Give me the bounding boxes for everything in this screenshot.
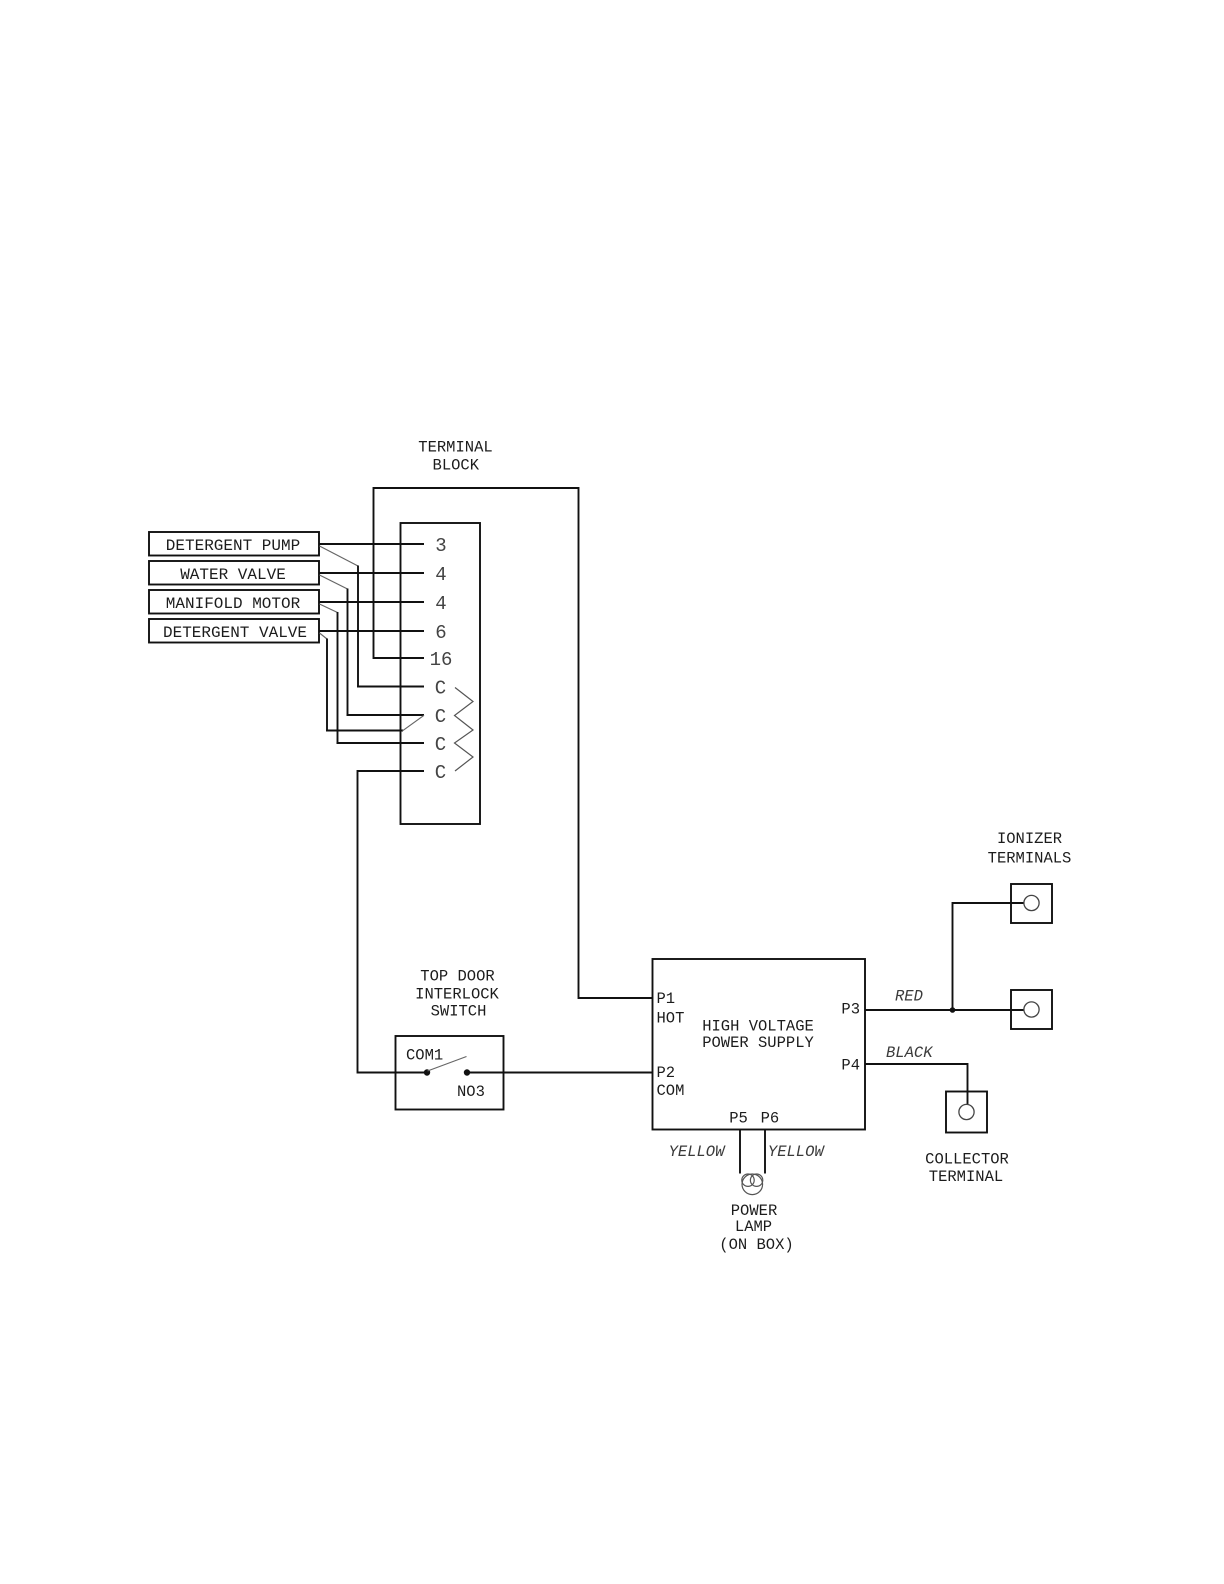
svg-text:P4: P4 [841,1057,860,1075]
switch contact COM [424,1069,430,1075]
power lamp [742,1174,763,1195]
wire switch NO to P2 COM [467,1072,653,1074]
svg-text:C: C [435,734,446,756]
switch contact NO [464,1069,470,1075]
svg-text:INTERLOCK: INTERLOCK [415,986,499,1004]
wire P6 to power lamp [764,1130,766,1174]
svg-text:4: 4 [435,564,446,586]
wire detergent pump to terminal C1 [320,546,425,687]
terminal block body [401,523,481,824]
collector terminal [946,1092,987,1133]
svg-text:COLLECTOR: COLLECTOR [925,1151,1009,1169]
interlock switch box [396,1036,504,1110]
svg-text:SWITCH: SWITCH [431,1003,487,1021]
svg-text:C: C [435,706,446,728]
svg-text:COM1: COM1 [406,1047,443,1065]
svg-text:C: C [435,678,446,700]
svg-text:P5: P5 [729,1110,748,1128]
svg-text:P2: P2 [657,1064,676,1082]
wire P4 BLACK to collector terminal [865,1064,968,1105]
svg-text:3: 3 [435,535,446,557]
svg-text:16: 16 [430,649,453,671]
svg-text:BLACK: BLACK [886,1044,933,1062]
svg-text:YELLOW: YELLOW [768,1143,826,1161]
box DETERGENT PUMP [149,532,319,556]
svg-text:P1: P1 [657,990,676,1008]
high voltage power supply box [653,959,866,1130]
svg-text:TERMINAL: TERMINAL [929,1168,1003,1186]
label HIGH VOLTAGE POWER SUPPLY [702,1018,814,1053]
wire detergent pump to terminal 3 [319,543,424,545]
wire terminal C4 to interlock switch COM [358,771,428,1073]
wire P5 to power lamp [739,1130,741,1174]
svg-text:WATER VALVE: WATER VALVE [180,566,286,584]
box DETERGENT VALVE [149,619,319,643]
label POWER LAMP (ON BOX) [719,1202,793,1254]
wire manifold motor to terminal C3 [320,604,425,743]
svg-text:(ON BOX): (ON BOX) [719,1236,793,1254]
wire detergent valve to terminal C2 via offset [320,633,425,731]
label TOP DOOR INTERLOCK SWITCH [415,968,499,1021]
wire manifold motor to terminal 4 [319,601,424,603]
svg-text:RED: RED [895,988,923,1006]
svg-text:POWER SUPPLY: POWER SUPPLY [702,1034,814,1052]
wire water valve to terminal 4 [319,572,424,574]
label TERMINAL BLOCK [418,439,492,475]
wire P3 RED to ionizer terminal B [865,1009,1024,1011]
svg-text:TOP DOOR: TOP DOOR [420,968,494,986]
wire branch to ionizer terminal A [953,903,1025,1010]
wire terminal-16 to P1 HOT [374,488,653,998]
svg-text:NO3: NO3 [457,1083,485,1101]
svg-text:P3: P3 [841,1001,860,1019]
svg-text:COM: COM [657,1082,685,1100]
ionizer terminal A [1011,884,1052,923]
switch blade [428,1057,467,1072]
label COLLECTOR TERMINAL [925,1151,1009,1187]
svg-text:LAMP: LAMP [735,1218,772,1236]
svg-text:HIGH VOLTAGE: HIGH VOLTAGE [702,1018,814,1036]
svg-text:YELLOW: YELLOW [669,1143,727,1161]
svg-text:6: 6 [435,622,446,644]
svg-text:IONIZER: IONIZER [997,830,1062,848]
svg-text:P6: P6 [761,1110,780,1128]
svg-text:DETERGENT VALVE: DETERGENT VALVE [163,624,307,642]
junction dot [950,1007,956,1013]
ionizer terminal B [1011,990,1052,1029]
svg-text:BLOCK: BLOCK [433,457,480,475]
box MANIFOLD MOTOR [149,590,319,614]
svg-text:HOT: HOT [657,1010,685,1028]
svg-text:MANIFOLD MOTOR: MANIFOLD MOTOR [166,595,301,613]
wire water valve to terminal C2 [320,575,425,715]
jumper zigzag across C terminals [455,688,474,772]
svg-text:TERMINAL: TERMINAL [418,439,492,457]
svg-text:DETERGENT PUMP: DETERGENT PUMP [166,537,300,555]
svg-text:C: C [435,762,446,784]
svg-text:4: 4 [435,593,446,615]
box WATER VALVE [149,561,319,585]
label IONIZER TERMINALS [988,830,1072,868]
svg-text:TERMINALS: TERMINALS [988,850,1072,868]
wire detergent valve to terminal 6 [319,630,424,632]
